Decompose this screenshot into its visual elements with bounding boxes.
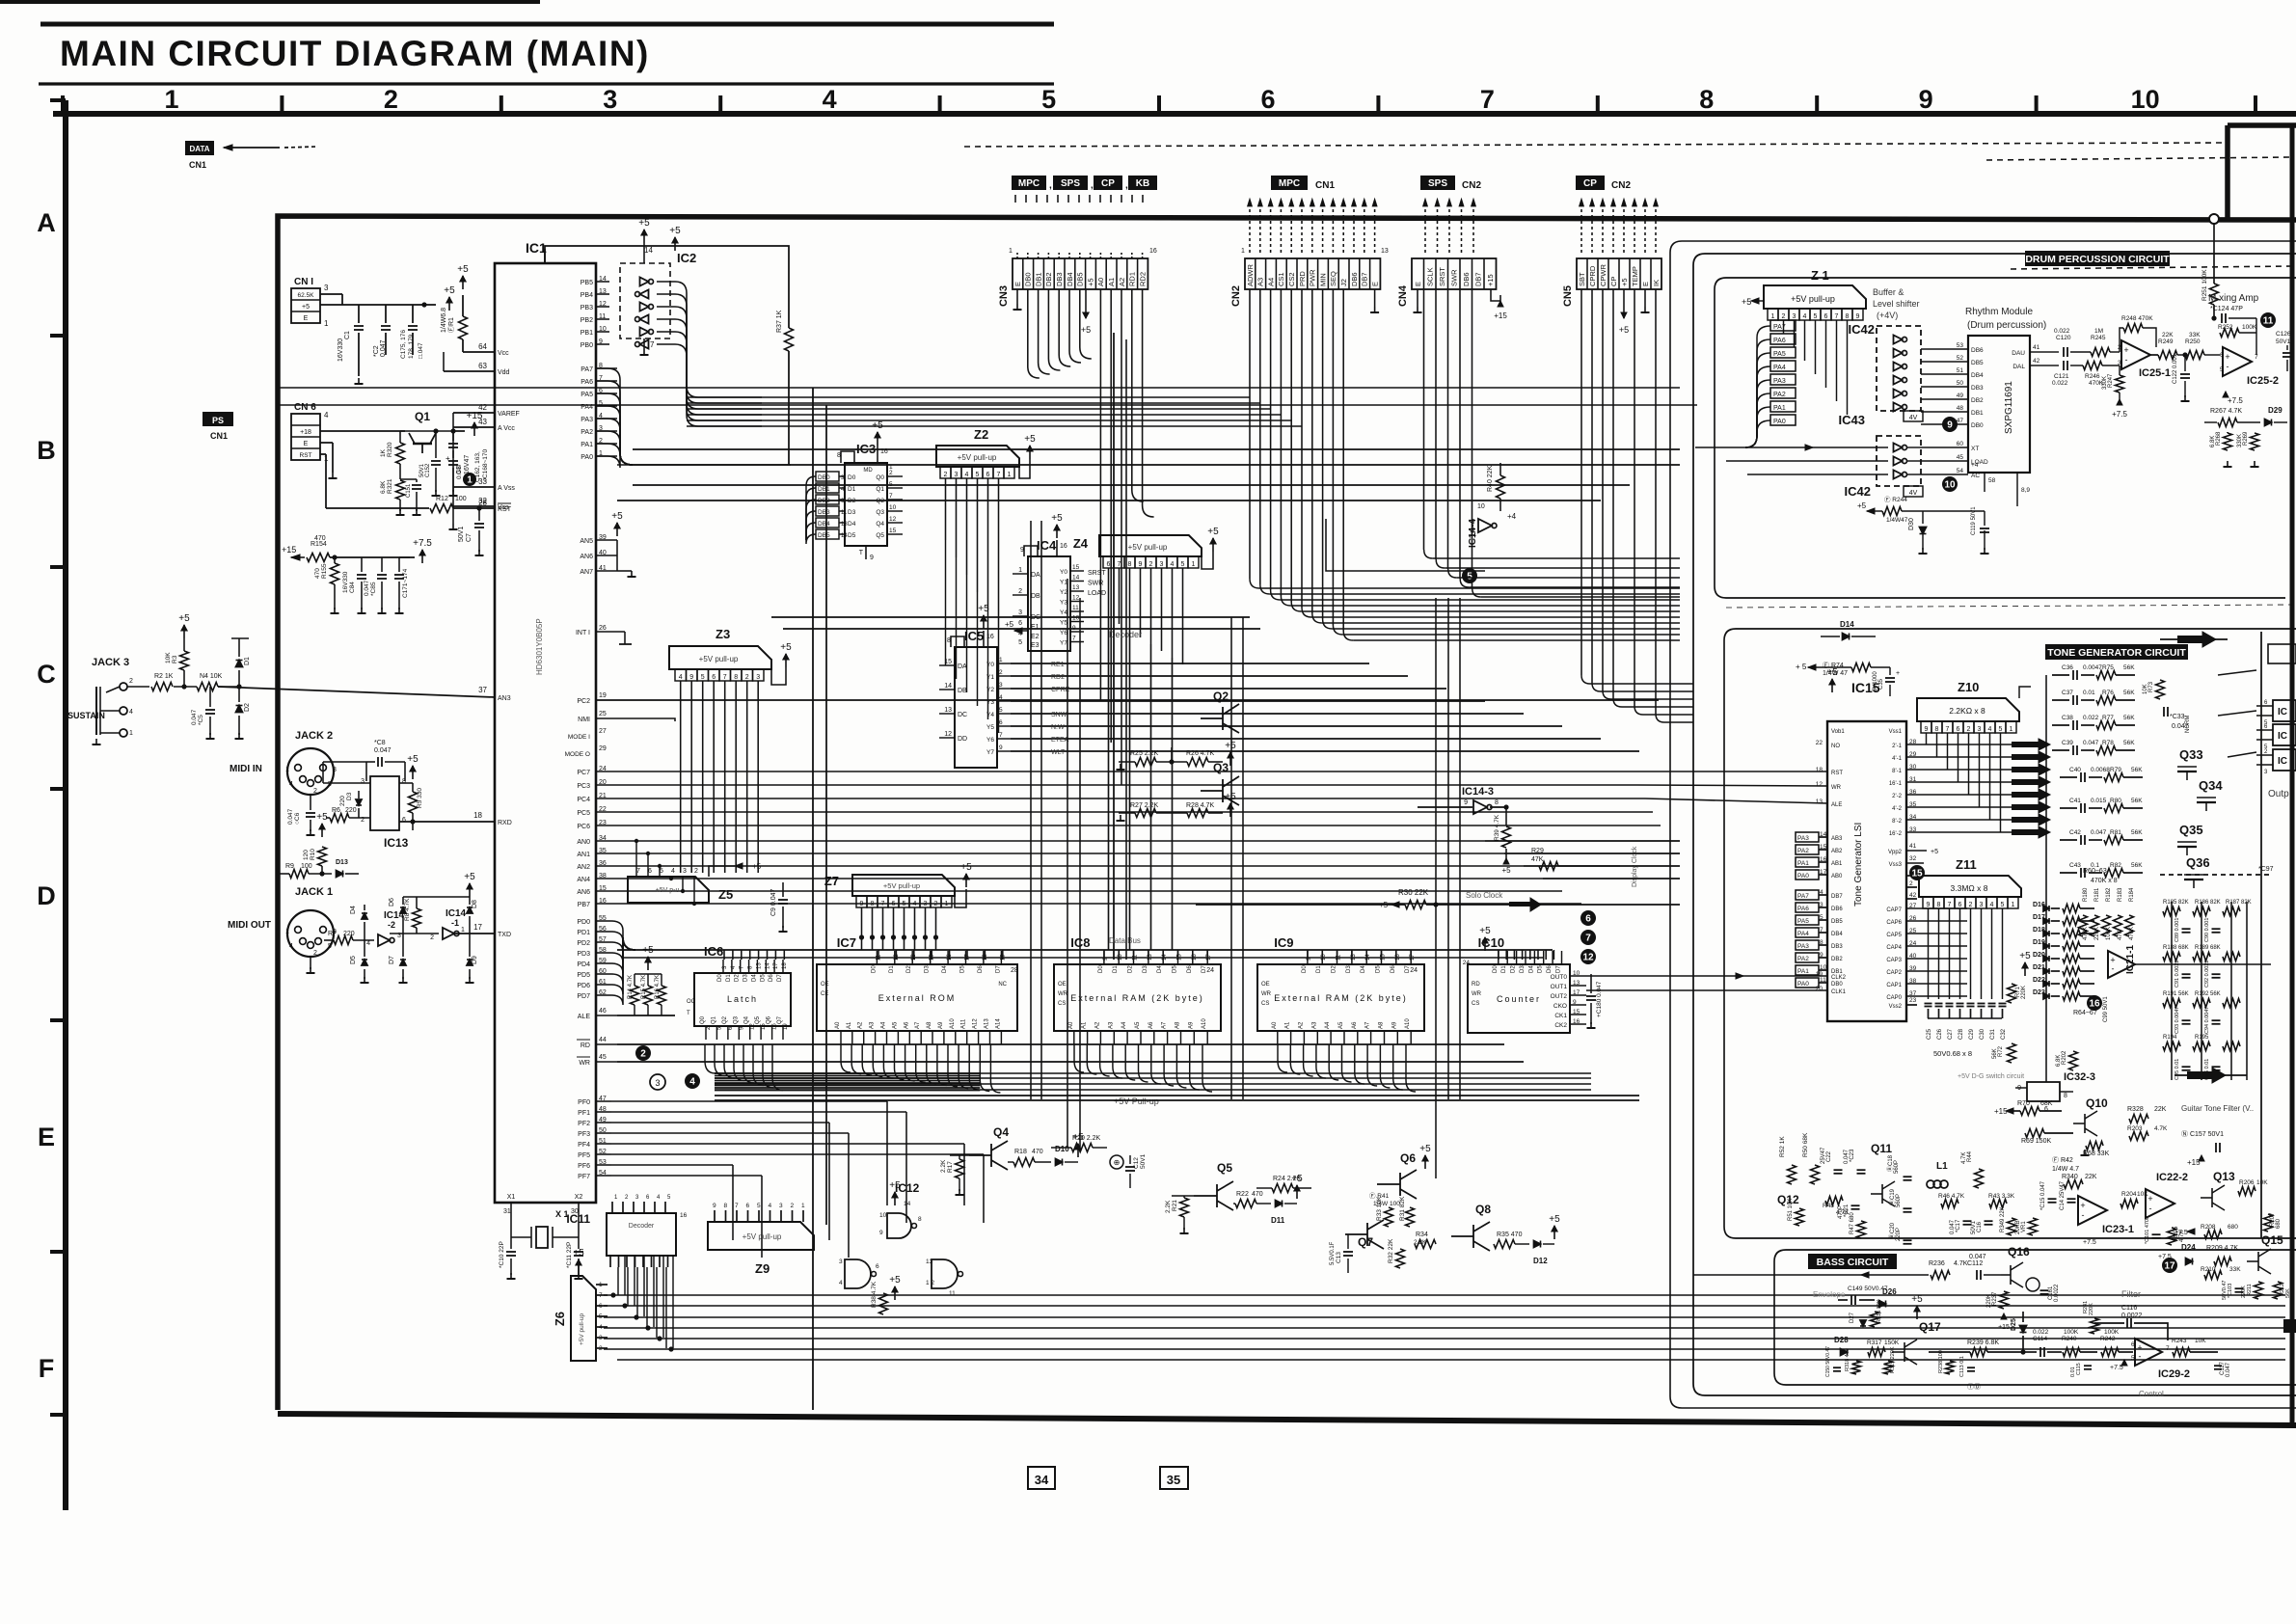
svg-text:C37: C37 xyxy=(2062,690,2073,696)
svg-text:40: 40 xyxy=(1909,953,1917,960)
svg-text:*C85: *C85 xyxy=(370,582,377,596)
svg-text:4: 4 xyxy=(289,781,293,788)
svg-text:MPC: MPC xyxy=(1279,178,1300,189)
capacitor C35 6V1000 xyxy=(1885,677,1895,679)
svg-text:DB3: DB3 xyxy=(1831,944,1843,950)
svg-text:Vss3: Vss3 xyxy=(1889,862,1903,868)
svg-text:R182: R182 xyxy=(2106,887,2112,902)
svg-text:3: 3 xyxy=(756,674,760,681)
svg-text:100K: 100K xyxy=(2242,324,2257,331)
svg-text:470K: 470K xyxy=(2129,927,2135,940)
svg-text:R252: R252 xyxy=(2218,324,2233,331)
svg-text:R154: R154 xyxy=(311,541,327,548)
svg-text:C84: C84 xyxy=(349,582,356,593)
svg-text:X1: X1 xyxy=(507,1194,516,1201)
svg-text:5: 5 xyxy=(2220,366,2224,373)
svg-text:Counter: Counter xyxy=(1497,994,1541,1004)
capacitor C175-179 xyxy=(408,325,418,327)
svg-text:IC9: IC9 xyxy=(1274,935,1293,950)
svg-text:DB4: DB4 xyxy=(1066,272,1074,286)
svg-text:7: 7 xyxy=(2255,354,2258,361)
svg-text:D2: D2 xyxy=(906,965,912,973)
svg-text:R79: R79 xyxy=(2110,767,2121,773)
svg-text:8: 8 xyxy=(1699,85,1714,114)
svg-text:C28: C28 xyxy=(1958,1028,1964,1040)
svg-text:50V1: 50V1 xyxy=(2276,338,2291,345)
svg-text:28: 28 xyxy=(478,499,487,507)
svg-text:4: 4 xyxy=(599,1324,603,1331)
svg-text:Vss1: Vss1 xyxy=(1889,729,1903,735)
CN4 wire drops xyxy=(1423,289,1425,550)
svg-text:11: 11 xyxy=(949,1290,956,1297)
wire PC2 long xyxy=(596,699,1659,701)
svg-text:11: 11 xyxy=(2263,316,2274,327)
svg-text:D4: D4 xyxy=(942,965,948,973)
svg-text:11: 11 xyxy=(1470,531,1476,538)
svg-text:+5V pull-up: +5V pull-up xyxy=(1128,543,1168,552)
row ruler line xyxy=(63,100,68,1510)
CN2 E gnd xyxy=(1374,289,1376,307)
svg-text:44: 44 xyxy=(599,1037,607,1043)
svg-text:*C10 22P: *C10 22P xyxy=(499,1241,505,1268)
network Z6 vertical xyxy=(571,1276,596,1361)
svg-text:48: 48 xyxy=(1957,405,1964,412)
svg-text:R248 470K: R248 470K xyxy=(2121,315,2153,322)
svg-text:0.047: 0.047 xyxy=(287,808,294,825)
svg-text:4.7K: 4.7K xyxy=(1961,1152,1967,1164)
svg-text:External RAM (2K byte): External RAM (2K byte) xyxy=(1274,993,1408,1003)
op-amp IC29-2 xyxy=(2135,1339,2162,1366)
svg-text:AC: AC xyxy=(1971,473,1980,479)
wire Vss pin32 xyxy=(453,505,495,507)
svg-text:PA1: PA1 xyxy=(1797,860,1809,867)
svg-text:A8: A8 xyxy=(927,1021,932,1029)
svg-text:D6: D6 xyxy=(978,965,984,973)
svg-text:D4: D4 xyxy=(1157,965,1163,973)
svg-text:ⓉⒹ: ⓉⒹ xyxy=(1967,1383,1981,1391)
inverter bank IC42 dashed xyxy=(1877,326,1921,411)
svg-text:18: 18 xyxy=(1816,767,1823,773)
label BASS CIRCUIT xyxy=(1808,1254,1897,1269)
svg-text:+5: +5 xyxy=(780,642,792,653)
svg-text:19: 19 xyxy=(1816,971,1823,978)
svg-text:DA: DA xyxy=(1031,572,1040,579)
svg-text:1/4W6.8: 1/4W6.8 xyxy=(441,308,447,333)
svg-text:TONE GENERATOR CIRCUIT: TONE GENERATOR CIRCUIT xyxy=(2047,647,2186,659)
transistor Q11 sym xyxy=(1871,1193,1882,1195)
svg-text:E: E xyxy=(1370,282,1379,286)
svg-text:R22: R22 xyxy=(1236,1191,1249,1198)
svg-text:100K: 100K xyxy=(2104,1329,2120,1336)
svg-text:7: 7 xyxy=(889,493,893,500)
svg-text:PD1: PD1 xyxy=(577,930,590,936)
svg-text:*C15 0.047: *C15 0.047 xyxy=(2040,1180,2046,1210)
svg-text:25: 25 xyxy=(1909,928,1917,934)
svg-text:C89 0.001: C89 0.001 xyxy=(2174,918,2180,942)
svg-text:10K: 10K xyxy=(2137,1191,2148,1198)
svg-text:9: 9 xyxy=(1925,726,1929,733)
svg-text:19: 19 xyxy=(599,692,607,699)
svg-text:13: 13 xyxy=(926,1259,933,1265)
svg-text:470: 470 xyxy=(1032,1149,1043,1155)
svg-text:R76: R76 xyxy=(2102,690,2114,696)
svg-text:+5: +5 xyxy=(316,812,328,823)
svg-text:PF2: PF2 xyxy=(578,1121,590,1127)
svg-text:CP: CP xyxy=(1609,277,1618,286)
svg-text:+5: +5 xyxy=(1931,849,1938,855)
svg-text:9: 9 xyxy=(1139,561,1143,568)
svg-text:1: 1 xyxy=(801,1203,805,1209)
svg-text:D2: D2 xyxy=(1332,965,1337,973)
svg-text:SNW: SNW xyxy=(1051,712,1067,718)
capacitor C180 0.047 xyxy=(1586,995,1596,997)
capacitor C22 25V47 xyxy=(1834,1169,1843,1171)
label A cut at edge xyxy=(2283,1319,2296,1333)
svg-text:50V0.47: 50V0.47 xyxy=(2222,1281,2228,1301)
svg-text:-: - xyxy=(2125,355,2128,365)
svg-text:0.047: 0.047 xyxy=(456,463,463,479)
svg-text:AN6: AN6 xyxy=(580,554,593,560)
module lower pins XT LOAD AC xyxy=(1921,447,1968,448)
svg-text:C175, 176: C175, 176 xyxy=(400,330,407,359)
address bus horizontals xyxy=(715,1072,1680,1074)
svg-text:51: 51 xyxy=(1957,367,1964,374)
resistor R68 33K xyxy=(2086,1142,2103,1150)
svg-text:RXD: RXD xyxy=(498,820,512,826)
svg-text:24: 24 xyxy=(1206,967,1214,974)
svg-text:19: 19 xyxy=(783,1023,789,1030)
svg-text:DB7: DB7 xyxy=(1831,894,1843,900)
numbered circle 11 xyxy=(2260,312,2276,328)
svg-text:SPS: SPS xyxy=(1061,178,1080,189)
+15 arrow Q1 out xyxy=(433,428,438,433)
svg-text:2: 2 xyxy=(129,678,133,685)
svg-text:7: 7 xyxy=(650,340,655,349)
svg-text:+5: +5 xyxy=(889,1275,901,1286)
svg-text:A7: A7 xyxy=(1365,1021,1371,1029)
bass inner frame xyxy=(1774,1250,2296,1385)
svg-text:24: 24 xyxy=(1909,940,1917,947)
svg-text:PF7: PF7 xyxy=(578,1174,590,1180)
svg-text:0.015: 0.015 xyxy=(2091,798,2107,804)
svg-text:CAP5: CAP5 xyxy=(1886,933,1902,938)
svg-text:*C17: *C17 xyxy=(1956,1219,1961,1232)
svg-text:R181: R181 xyxy=(2094,887,2100,902)
svg-text:8: 8 xyxy=(837,452,841,459)
resistor R22 470 xyxy=(1235,1200,1256,1208)
svg-text:6: 6 xyxy=(599,1303,603,1310)
svg-text:IC25-1: IC25-1 xyxy=(2139,367,2171,379)
svg-text:+5: +5 xyxy=(1857,501,1867,510)
svg-text:10: 10 xyxy=(1944,480,1956,491)
Z1 pin drops xyxy=(1772,319,1774,321)
svg-text:MD: MD xyxy=(863,468,873,474)
wires AN rows rightward stagger xyxy=(1485,840,1680,842)
svg-text:R155: R155 xyxy=(321,563,328,579)
svg-text:CAP3: CAP3 xyxy=(1886,958,1902,963)
svg-text:IC15: IC15 xyxy=(1851,680,1880,695)
resistor R316 10K xyxy=(1871,1312,1879,1327)
svg-text:+5: +5 xyxy=(1479,926,1491,936)
svg-text:0.022: 0.022 xyxy=(2054,328,2070,335)
wires PC7 PC3 PC4 PC5 PC6 long xyxy=(596,771,1630,772)
svg-text:R184: R184 xyxy=(2129,887,2135,902)
resistor R32 22K xyxy=(1396,1249,1405,1268)
bottom long bus wires xyxy=(604,1294,2285,1296)
wire right trunk vertical A xyxy=(1682,240,2296,242)
svg-text:R183: R183 xyxy=(2118,887,2123,902)
Z4 drop extensions xyxy=(1108,617,1110,950)
svg-text:C42: C42 xyxy=(2069,829,2081,836)
svg-text:5: 5 xyxy=(976,472,980,478)
inverter IC14-1 xyxy=(443,928,454,939)
Z7 drops xyxy=(861,907,863,950)
svg-text:22K: 22K xyxy=(2162,332,2174,338)
svg-text:+5V D-G switch circuit: +5V D-G switch circuit xyxy=(1958,1073,2024,1080)
svg-text:L1: L1 xyxy=(1936,1161,1948,1172)
svg-text:Vss2: Vss2 xyxy=(1889,1004,1903,1010)
svg-text:+5: +5 xyxy=(642,945,654,956)
Z11 cap wires xyxy=(1928,907,1930,909)
IC3 DB stubs xyxy=(816,472,839,481)
svg-text:SEQ: SEQ xyxy=(1329,271,1337,286)
svg-text:DB: DB xyxy=(958,688,967,694)
svg-text:C31: C31 xyxy=(1990,1028,1996,1040)
svg-text:A5: A5 xyxy=(1338,1021,1344,1029)
svg-text:+5: +5 xyxy=(1742,297,1751,307)
svg-text:Q4: Q4 xyxy=(993,1125,1009,1139)
svg-text:Q17: Q17 xyxy=(1919,1320,1941,1334)
capacitor C12 50V1 xyxy=(1110,1155,1123,1169)
capacitor C152 50V1 xyxy=(431,460,441,462)
svg-text:MIN: MIN xyxy=(1318,273,1327,286)
Z3 drops xyxy=(680,681,682,873)
right edge IC stubs xyxy=(2273,700,2296,721)
svg-text:+15: +15 xyxy=(282,545,296,555)
diode D4 xyxy=(362,913,367,919)
Z2 vertical drops xyxy=(945,478,947,540)
svg-text:A1: A1 xyxy=(1285,1021,1291,1029)
trunk bends lower right xyxy=(812,1409,814,1411)
svg-text:27: 27 xyxy=(599,728,607,735)
svg-text:Z2: Z2 xyxy=(974,427,988,442)
svg-text:D3: D3 xyxy=(1520,965,1526,973)
svg-text:PD7: PD7 xyxy=(577,993,590,1000)
resistor R250 33K xyxy=(2185,351,2204,360)
capacitor C113 0.1 xyxy=(1967,1367,1975,1368)
svg-text:4'-1: 4'-1 xyxy=(1892,756,1902,762)
RD WR long wires xyxy=(617,1043,1504,1045)
svg-text:Z4: Z4 xyxy=(1073,536,1089,551)
wires tone out xyxy=(2135,963,2296,965)
column ruler line xyxy=(53,111,2296,117)
svg-text:1: 1 xyxy=(945,901,949,907)
svg-text:DA: DA xyxy=(958,663,967,670)
svg-text:Vcc: Vcc xyxy=(498,350,509,357)
resistor R269 330K xyxy=(2251,433,2259,450)
svg-text:D3: D3 xyxy=(1346,965,1352,973)
Z10 drops to bus arrows xyxy=(1926,733,1928,744)
svg-text:14: 14 xyxy=(944,683,952,690)
dashed ticks under labels xyxy=(1014,195,1016,203)
svg-text:R5 330: R5 330 xyxy=(417,788,423,808)
svg-text:D1: D1 xyxy=(889,965,895,973)
svg-text:R250: R250 xyxy=(2185,338,2201,345)
svg-text:CN I: CN I xyxy=(294,277,313,287)
svg-text:Q34: Q34 xyxy=(2199,778,2223,793)
RC band left vertical xyxy=(2045,675,2047,1082)
resistor R208 680 xyxy=(2204,1231,2222,1239)
svg-text:Y1: Y1 xyxy=(1060,580,1067,586)
resistor R9 100 xyxy=(289,870,309,879)
svg-text:DB0: DB0 xyxy=(818,474,830,481)
svg-text:0.047: 0.047 xyxy=(2091,829,2107,836)
svg-text:16'-1: 16'-1 xyxy=(1889,781,1903,787)
svg-text:A9: A9 xyxy=(938,1021,944,1029)
svg-text:C112: C112 xyxy=(1967,1260,1983,1267)
svg-text:IK: IK xyxy=(1652,280,1661,286)
svg-text:C29: C29 xyxy=(1969,1028,1975,1040)
svg-text:A2: A2 xyxy=(1298,1021,1304,1029)
svg-text:PC7: PC7 xyxy=(577,770,590,776)
svg-text:13: 13 xyxy=(756,962,762,969)
svg-text:Y2: Y2 xyxy=(1060,589,1067,596)
svg-text:OE: OE xyxy=(1261,982,1270,988)
svg-text:R7: R7 xyxy=(328,931,337,937)
schematic frame xyxy=(278,216,2296,1410)
svg-text:100: 100 xyxy=(301,863,312,870)
resistor R249 22K xyxy=(2158,351,2177,360)
svg-text:CS2: CS2 xyxy=(1287,272,1296,286)
svg-text:Z7: Z7 xyxy=(824,874,839,888)
svg-text:X2: X2 xyxy=(575,1194,583,1201)
svg-text:6.8K: 6.8K xyxy=(380,480,387,494)
svg-text:9: 9 xyxy=(870,555,874,561)
svg-text:D7: D7 xyxy=(777,974,783,982)
svg-text:0.047: 0.047 xyxy=(374,747,392,754)
svg-text:PC4: PC4 xyxy=(577,797,590,803)
svg-text:5: 5 xyxy=(1467,572,1472,582)
svg-text:D3: D3 xyxy=(1143,965,1148,973)
numbered circle 9 xyxy=(1942,417,1958,432)
row C long wires xyxy=(771,616,1250,618)
svg-text:R78: R78 xyxy=(2102,740,2114,746)
svg-text:+15: +15 xyxy=(467,411,483,421)
svg-text:R33 10K: R33 10K xyxy=(1376,1196,1383,1221)
inverter bank IC2 dashed box xyxy=(620,263,670,338)
svg-text:+5V p-u: +5V p-u xyxy=(656,887,680,894)
svg-text:1: 1 xyxy=(1018,567,1022,574)
dashed line right upper xyxy=(1986,157,2292,160)
network Z2 xyxy=(936,446,1019,467)
svg-text:2'-2: 2'-2 xyxy=(1892,794,1902,799)
svg-text:Ⓕ R244: Ⓕ R244 xyxy=(1884,496,1907,503)
svg-text:A14: A14 xyxy=(995,1018,1001,1029)
svg-text:WR: WR xyxy=(1472,991,1482,997)
wire CN1 to C1 cluster xyxy=(320,293,342,295)
svg-text:2.2K: 2.2K xyxy=(940,1159,947,1173)
resistor R69 150K xyxy=(2025,1129,2044,1138)
IC15 left AB pins xyxy=(1796,832,1819,842)
opto IC13 xyxy=(370,776,399,830)
svg-text:2: 2 xyxy=(1967,726,1971,733)
svg-text:OE: OE xyxy=(821,982,829,988)
resistor R34 2.2K xyxy=(1415,1240,1436,1249)
svg-text:R192 56K: R192 56K xyxy=(2195,991,2221,997)
CAP wires to Z11 xyxy=(1924,907,1967,909)
svg-text:R17: R17 xyxy=(947,1161,954,1173)
svg-text:T: T xyxy=(687,1011,690,1016)
ALE to R14 cluster xyxy=(674,1015,676,1016)
svg-text:LOAD: LOAD xyxy=(1088,590,1106,597)
svg-text:SRST: SRST xyxy=(1438,267,1446,286)
svg-text:D7: D7 xyxy=(389,956,395,964)
svg-text:Q35: Q35 xyxy=(2179,823,2203,837)
svg-text:+5: +5 xyxy=(302,304,310,311)
svg-text:Z11: Z11 xyxy=(1956,857,1977,872)
svg-text:4.7K: 4.7K xyxy=(1954,1260,1968,1267)
op-amps IC23-1 IC22-2 xyxy=(2078,1196,2107,1225)
svg-text:BASS CIRCUIT: BASS CIRCUIT xyxy=(1817,1257,1889,1268)
svg-text:DC: DC xyxy=(958,712,967,718)
svg-text:○C168~170: ○C168~170 xyxy=(482,449,489,482)
svg-text:R21: R21 xyxy=(1172,1200,1178,1211)
svg-text:16: 16 xyxy=(680,1212,688,1219)
bus wire horizontal A xyxy=(278,387,1680,389)
svg-text:NO: NO xyxy=(1831,744,1840,749)
circled C162 note xyxy=(463,473,476,486)
svg-text:220K: 220K xyxy=(1986,1294,1992,1308)
diode D27 xyxy=(1860,1320,1866,1326)
svg-text:C9 0.047: C9 0.047 xyxy=(770,888,777,916)
svg-text:D1: D1 xyxy=(244,657,251,665)
capacitor C2 0.047 xyxy=(381,325,391,327)
svg-text:PS: PS xyxy=(212,416,224,425)
svg-text:7: 7 xyxy=(1946,726,1950,733)
svg-text:Q2: Q2 xyxy=(722,1015,728,1024)
svg-text:16V47: 16V47 xyxy=(464,455,471,474)
inverter bank IC42 lower dashed xyxy=(1877,436,1921,486)
latch IC3 xyxy=(845,463,887,546)
svg-text:CAP2: CAP2 xyxy=(1886,970,1902,976)
svg-text:1: 1 xyxy=(461,927,465,934)
svg-text:6: 6 xyxy=(876,1263,879,1270)
svg-text:ⒷC19: ⒷC19 xyxy=(1888,1188,1896,1205)
svg-text:Q6: Q6 xyxy=(1400,1151,1416,1165)
svg-text:+5: +5 xyxy=(611,511,623,522)
svg-text:R80: R80 xyxy=(2110,798,2121,804)
svg-text:7: 7 xyxy=(999,732,1003,739)
svg-text:IC14-3: IC14-3 xyxy=(1462,786,1494,798)
svg-text:R328: R328 xyxy=(2127,1106,2144,1113)
wire Vdd pin63 xyxy=(444,370,495,372)
svg-text:DB5: DB5 xyxy=(818,532,830,539)
svg-text:ETEA: ETEA xyxy=(1051,737,1069,744)
svg-text:(Drum percussion): (Drum percussion) xyxy=(1967,320,2046,331)
inverter IC14-3 xyxy=(1473,800,1487,814)
svg-text:A1: A1 xyxy=(1082,1021,1088,1029)
title rule bottom xyxy=(39,82,1054,85)
svg-text:PA3: PA3 xyxy=(1797,835,1809,842)
svg-text:4.7K: 4.7K xyxy=(2154,1125,2168,1132)
svg-text:DB2: DB2 xyxy=(818,498,830,504)
svg-text:AB2: AB2 xyxy=(1831,849,1843,854)
resistor R21 2.2K xyxy=(1180,1198,1189,1217)
svg-text:+5: +5 xyxy=(457,264,469,275)
label MPC xyxy=(1012,176,1046,190)
svg-text:*C8: *C8 xyxy=(374,740,386,746)
resistor R206 10K xyxy=(2238,1187,2255,1196)
